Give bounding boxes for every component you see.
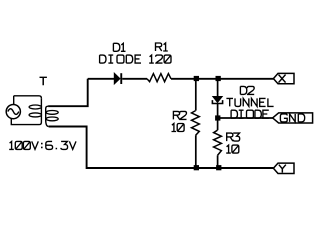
resistor R1 zigzag <box>147 74 171 82</box>
node junction dot bottom-left <box>194 165 199 170</box>
wire: D2 to GND node <box>217 104 219 131</box>
label 100V:6.3V <box>9 141 76 149</box>
node junction dot bottom-right <box>216 165 221 170</box>
terminal X flag <box>273 73 294 83</box>
label X <box>279 75 286 83</box>
label T <box>40 77 47 85</box>
terminal Y flag <box>273 163 294 173</box>
label DIODE (D2) <box>231 110 269 118</box>
wire: secondary top lead to riser <box>48 79 88 106</box>
node junction dot top-right (D2 tap) <box>216 76 221 81</box>
resistor R3 zigzag <box>214 130 222 155</box>
label GND <box>280 114 304 122</box>
label R2 <box>173 111 186 119</box>
transformer T : secondary left spine <box>46 106 49 126</box>
diode D1 triangle <box>114 73 120 84</box>
transformer T : AC source circle <box>6 105 20 119</box>
label R1 <box>156 43 168 51</box>
wire: GND lead <box>218 117 273 119</box>
wire: R2 branch lower <box>195 135 197 168</box>
transformer T : secondary loop 2 <box>46 117 58 121</box>
label Y <box>279 165 286 173</box>
label DIODE (D1) <box>100 55 141 63</box>
label 10 (R2) <box>172 124 185 132</box>
wire: R1 to X terminal <box>171 78 273 80</box>
label D2 <box>240 86 254 94</box>
wire: AC source top to primary top rail <box>13 96 15 104</box>
transformer T : primary winding right spine <box>39 98 41 124</box>
transformer T : sine wave inside source <box>8 109 19 115</box>
wire: primary top rail <box>14 96 42 99</box>
diode D1 cathode bar <box>120 73 122 84</box>
label R3 <box>227 133 240 141</box>
wire: R2 branch upper <box>195 79 197 111</box>
label D1 <box>113 43 125 51</box>
transformer T : primary loop 2 <box>29 113 41 117</box>
node junction dot at GND tap <box>215 115 220 120</box>
label TUNNEL <box>226 98 273 106</box>
wire: bottom rail from transformer to Y terminal <box>49 127 274 169</box>
label 120 <box>149 55 171 63</box>
tunnel diode D2 triangle <box>213 97 222 103</box>
terminal GND flag <box>273 113 313 123</box>
tunnel diode D2 cathode bar with bent ends <box>212 100 222 103</box>
transformer T : primary loop 1 <box>29 105 41 109</box>
resistor R2 zigzag <box>192 111 200 136</box>
wire: D2 branch upper <box>217 79 219 97</box>
label 10 (R3) <box>226 145 239 153</box>
wire: R3 lower <box>217 155 219 168</box>
wire: top wire from riser to diode D1 <box>88 78 115 80</box>
node junction dot top-left (R2 tap) <box>194 76 199 81</box>
wire: D1 to R1 <box>122 78 147 80</box>
wire: primary bottom rail <box>11 119 39 125</box>
transformer T : secondary loop 1 <box>46 111 58 115</box>
